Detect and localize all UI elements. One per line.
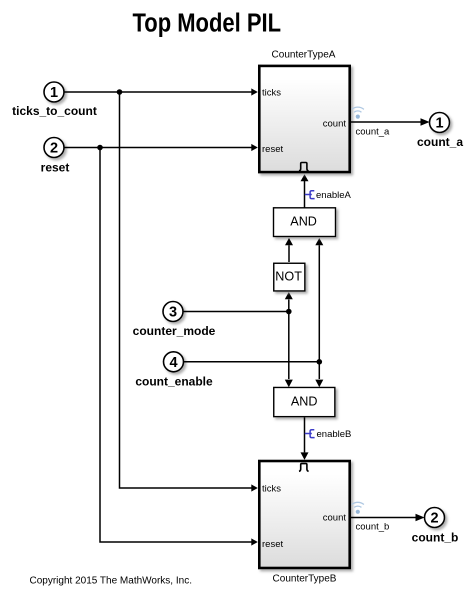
junction counter_mode (286, 309, 292, 315)
svg-text:AND: AND (290, 215, 317, 229)
wire port4 to junction (183, 361, 319, 363)
label enableB (317, 429, 352, 440)
wire port3 to junction (183, 311, 289, 313)
copyright note (30, 576, 193, 587)
svg-text:2: 2 (430, 511, 438, 527)
svg-text:counter_mode: counter_mode (133, 324, 216, 338)
label count_b (signal name) (356, 522, 390, 533)
block NOT (274, 263, 305, 291)
wire junction down to AND2 input 1 (285, 312, 293, 388)
svg-text:Top Model PIL: Top Model PIL (133, 10, 282, 38)
svg-text:CounterTypeA: CounterTypeA (272, 50, 336, 61)
test point icon enableB (305, 430, 315, 438)
signal logging badge count_b (wifi icon) (352, 502, 364, 514)
input port 1 ticks_to_count (12, 82, 97, 118)
svg-text:count: count (323, 513, 347, 524)
svg-text:reset: reset (262, 144, 283, 155)
block AND1 (274, 208, 336, 237)
wire CounterTypeA count to output port 1 (350, 118, 430, 126)
block CounterTypeB (259, 461, 349, 585)
trigger pulse symbol CounterTypeA (299, 163, 309, 171)
input port 2 reset (41, 138, 70, 175)
output port 1 count_a (417, 113, 463, 150)
svg-text:AND: AND (291, 395, 318, 409)
title (133, 10, 282, 38)
svg-text:4: 4 (169, 355, 177, 371)
wire port2 to CounterTypeA reset (64, 144, 258, 151)
svg-text:count_a: count_a (417, 135, 463, 149)
svg-text:enableA: enableA (316, 190, 352, 201)
svg-text:count_a: count_a (356, 127, 391, 138)
block AND2 (274, 387, 335, 416)
svg-text:1: 1 (435, 116, 443, 132)
svg-text:count: count (323, 119, 347, 130)
svg-text:count_b: count_b (356, 522, 390, 533)
svg-text:CounterTypeB: CounterTypeB (273, 574, 337, 585)
wire port1 branch to CounterTypeB ticks (120, 92, 258, 492)
junction port1 branch (117, 89, 123, 95)
wire junction down to AND2 input 2 (315, 362, 323, 387)
svg-text:count_b: count_b (412, 531, 459, 545)
svg-text:ticks: ticks (262, 88, 281, 99)
svg-text:reset: reset (41, 160, 70, 174)
input port 3 counter_mode (133, 302, 216, 339)
svg-text:ticks: ticks (262, 483, 281, 494)
wire port1 to CounterTypeA ticks (64, 88, 258, 95)
svg-text:NOT: NOT (275, 270, 302, 284)
wire NOT output to AND1 input 1 (285, 238, 293, 262)
svg-text:Copyright 2015 The MathWorks,: Copyright 2015 The MathWorks, Inc. (30, 576, 193, 587)
label enableA (316, 190, 352, 201)
wire AND1 output to CounterTypeA trigger (enableA) (301, 174, 309, 207)
block CounterTypeA (259, 50, 349, 173)
wire CounterTypeB count to output port 2 (350, 514, 424, 522)
input port 4 count_enable (135, 352, 213, 389)
label count_a (signal name) (356, 127, 391, 138)
wire junction to NOT input (285, 292, 293, 312)
trigger pulse symbol CounterTypeB (299, 464, 309, 472)
svg-text:reset: reset (262, 539, 283, 550)
output port 2 count_b (412, 508, 459, 545)
junction port2 branch (97, 145, 103, 151)
test point icon enableA (305, 191, 315, 199)
svg-text:3: 3 (169, 305, 177, 321)
wire junction up to AND1 input 2 (315, 238, 323, 362)
signal logging badge count_a (wifi icon) (352, 107, 364, 119)
svg-text:1: 1 (50, 85, 58, 101)
wire AND2 output to CounterTypeB trigger (enableB) (301, 417, 309, 460)
svg-text:ticks_to_count: ticks_to_count (12, 104, 97, 118)
junction count_enable (317, 359, 323, 365)
wire port2 branch to CounterTypeB reset (100, 148, 258, 546)
svg-text:count_enable: count_enable (135, 375, 213, 389)
svg-text:2: 2 (50, 141, 58, 157)
svg-text:enableB: enableB (317, 429, 352, 440)
